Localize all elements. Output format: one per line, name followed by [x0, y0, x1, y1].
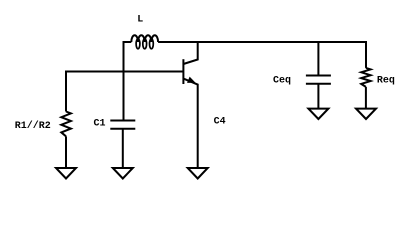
ground under emitter / C4 [188, 168, 208, 179]
svg-text:C1: C1 [94, 119, 106, 130]
transistor Q1 emitter lead [183, 79, 197, 168]
svg-text:Req: Req [377, 75, 395, 86]
transistor Q1 collector lead [183, 41, 197, 64]
svg-text:Ceq: Ceq [273, 75, 291, 86]
svg-text:C4: C4 [214, 116, 226, 127]
wire from Req to ground [365, 87, 367, 109]
wire from resistor R1//R2 to ground [65, 136, 67, 168]
wire from base rail down to resistor R1//R2 [65, 71, 67, 112]
wire from Ceq to ground [317, 84, 319, 109]
capacitor C1 [110, 121, 135, 129]
ground under Req [356, 109, 376, 119]
capacitor Ceq [306, 76, 331, 84]
wire from top rail down to Ceq [317, 41, 319, 76]
wire vertical from top rail down to C1 (crosses base wire) [123, 41, 125, 121]
wire from C1 to ground [122, 129, 124, 168]
transistor Q1 base bar [182, 59, 184, 84]
ground under Ceq [308, 109, 328, 119]
wire base rail from R1//R2 to transistor base [66, 71, 183, 73]
wire top rail from inductor to Req corner [158, 41, 366, 43]
ground under C1 [113, 168, 133, 179]
ground under R1//R2 [56, 168, 76, 179]
svg-text:R1//R2: R1//R2 [15, 120, 51, 132]
transistor Q1 emitter arrow [188, 78, 195, 83]
resistor R1//R2 [61, 112, 71, 137]
wire from top rail corner down to Req [365, 41, 367, 68]
svg-text:L: L [137, 15, 143, 26]
resistor Req [361, 68, 370, 87]
inductor L [131, 35, 158, 49]
wire top rail left stub to inductor [124, 41, 132, 43]
